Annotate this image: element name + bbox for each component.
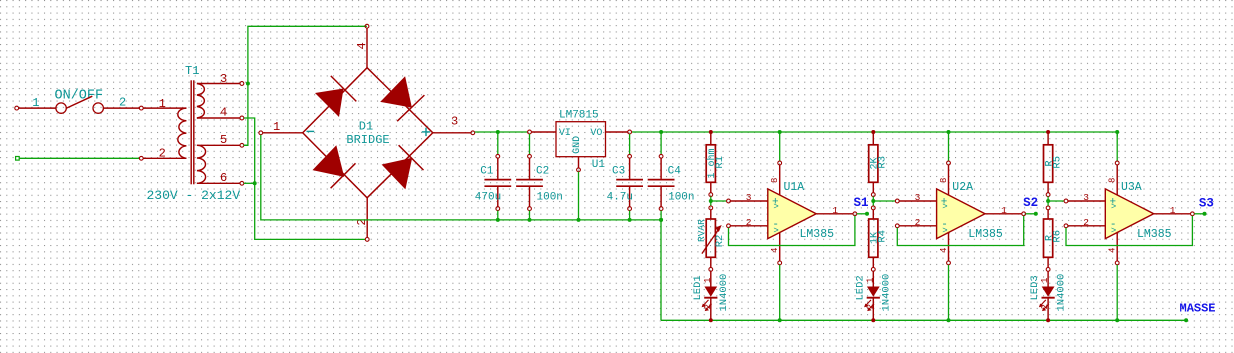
regulator U1 pin VI label [559, 128, 571, 139]
bridge D1 diode top-left [315, 76, 356, 117]
svg-text:C3: C3 [612, 165, 625, 177]
regulator U1 pin VO [606, 131, 628, 133]
svg-text:4: 4 [1108, 248, 1118, 253]
transformer T1 pin 1 number [159, 97, 166, 111]
svg-text:1: 1 [832, 205, 838, 216]
net label S2 [1023, 196, 1038, 210]
switch SW1 label ON/OFF [55, 89, 104, 104]
svg-text:S1: S1 [854, 196, 869, 210]
op-amp U1A [727, 130, 869, 322]
transformer T1 primary winding [178, 108, 187, 158]
svg-text:LM385: LM385 [1137, 228, 1172, 241]
svg-text:8: 8 [939, 178, 949, 183]
svg-text:2: 2 [746, 217, 752, 228]
svg-text:1: 1 [865, 278, 875, 283]
svg-text:3: 3 [451, 115, 458, 129]
transformer T1 pin 3 number [220, 72, 227, 86]
regulator U1 value LM7815 [559, 109, 599, 121]
svg-text:U3A: U3A [1121, 181, 1142, 194]
svg-text:4: 4 [220, 106, 227, 120]
transformer T1 secondary winding bottom [197, 145, 206, 183]
svg-text:U1A: U1A [784, 181, 805, 194]
svg-text:GND: GND [572, 136, 583, 154]
svg-text:1: 1 [32, 96, 39, 110]
transformer T1 core [191, 80, 194, 184]
svg-text:1: 1 [159, 97, 166, 111]
transformer T1 pin 1 circle [139, 106, 143, 110]
transformer T1 secondary winding top [197, 84, 204, 119]
MASSE rail end dot [1184, 318, 1188, 322]
wire S2 to U3A pin3 [1048, 200, 1064, 202]
regulator U1 pin GND circle [577, 168, 581, 172]
wire T1 pin4/pin6 to bridge AC bottom [244, 118, 366, 239]
wire primary bottom (green) [16, 157, 140, 161]
regulator U1 reference [592, 159, 606, 171]
wire bridge pin3 to VI [475, 131, 528, 133]
wire bridge pin1 to 0V mid rail [261, 135, 661, 220]
svg-text:LM7815: LM7815 [559, 109, 599, 121]
svg-text:T1: T1 [185, 64, 199, 78]
wire T1 pin3/pin5 to bridge AC top [244, 26, 367, 145]
svg-text:3: 3 [1083, 192, 1089, 203]
wire T1 pin5 stub [244, 144, 248, 146]
bridge D1 pin 4 number [355, 42, 369, 49]
net label S1 [854, 196, 869, 210]
svg-text:>: > [942, 226, 947, 236]
wire VO to V+ rail [632, 132, 1118, 137]
regulator U1 pin VI [531, 131, 556, 133]
transformer T1 pin 5 number [220, 133, 227, 147]
svg-text:U1: U1 [592, 159, 606, 171]
transformer T1 pin 4 circle [240, 116, 244, 120]
svg-text:1: 1 [1170, 205, 1176, 216]
svg-text:LM385: LM385 [800, 228, 835, 241]
transformer T1 pin 6 number [220, 171, 227, 185]
bridge D1 pin 1 (left) [263, 132, 303, 134]
bridge D1 diode bottom-right [382, 145, 424, 189]
transformer T1 value 230V - 2x12V [147, 188, 241, 203]
svg-text:C4: C4 [668, 165, 682, 177]
LED LED1 1N4000 [692, 271, 730, 322]
bridge D1 pin 1 number [273, 120, 280, 134]
LED LED2 1N4000 [854, 271, 892, 322]
svg-text:>: > [1111, 226, 1116, 236]
op-amp U3A [1064, 130, 1206, 322]
svg-text:1: 1 [1040, 278, 1050, 283]
transformer T1 pin 4 number [220, 106, 227, 120]
bridge D1 pin 3 circle [471, 131, 475, 135]
svg-text:LM385: LM385 [968, 228, 1003, 241]
transformer T1 label [185, 64, 199, 78]
svg-text:LED1: LED1 [692, 275, 704, 300]
svg-text:VO: VO [590, 128, 602, 139]
svg-text:8: 8 [770, 178, 780, 183]
svg-text:MASSE: MASSE [1180, 302, 1216, 316]
svg-text:470u: 470u [475, 192, 501, 204]
transformer T1 pin 2 circle [139, 156, 143, 160]
switch pin 2 number [119, 96, 126, 110]
svg-text:3: 3 [915, 192, 921, 203]
bridge plus sign [422, 128, 430, 136]
svg-text:1: 1 [273, 120, 280, 134]
wire S1 to U2A pin3 [873, 200, 895, 202]
resistor R6 [1044, 206, 1064, 271]
svg-text:R4: R4 [877, 230, 889, 243]
svg-text:6: 6 [220, 171, 227, 185]
transformer T1 pin 4 [197, 117, 240, 119]
regulator U1 pin VO circle [628, 130, 632, 134]
regulator U1 pin VO label [590, 128, 602, 139]
switch pin 1 number [32, 96, 39, 110]
svg-text:4: 4 [355, 42, 369, 49]
wire U1 GND to 0V rail [578, 172, 580, 220]
svg-text:1N4000: 1N4000 [718, 274, 730, 312]
regulator U1 pin GND label [572, 136, 583, 154]
regulator U1 box [556, 122, 606, 157]
svg-text:2: 2 [1083, 217, 1089, 228]
bridge D1 pin 3 (right) [433, 132, 471, 134]
junction T1 pin3 [246, 82, 250, 86]
junction S1 node [871, 199, 875, 203]
svg-text:3: 3 [746, 192, 752, 203]
junction S2 node [1046, 199, 1050, 203]
svg-text:ON/OFF: ON/OFF [55, 89, 104, 104]
bridge D1 pin 1 circle [259, 131, 263, 135]
bridge D1 value BRIDGE [346, 133, 389, 147]
svg-text:8: 8 [1108, 178, 1118, 183]
bridge D1 pin 4 circle [365, 24, 369, 28]
svg-text:1N4000: 1N4000 [881, 274, 893, 312]
wire node to U1A pin3 [711, 200, 727, 202]
transformer T1 pin 5 circle [240, 143, 244, 147]
transformer T1 pin 1 [143, 107, 186, 109]
svg-text:4: 4 [770, 248, 780, 253]
switch SW1 blade [66, 96, 92, 108]
svg-text:D1: D1 [359, 119, 373, 133]
svg-text:100n: 100n [537, 192, 563, 204]
junction U1 GND [577, 218, 581, 222]
wire S2 node vertical [1047, 197, 1049, 207]
svg-text:1: 1 [703, 278, 713, 283]
regulator U1 pin VI circle [528, 130, 532, 134]
transformer T1 pin 2 [143, 157, 186, 159]
svg-text:R1: R1 [714, 156, 726, 169]
regulator U1 pin GND [578, 157, 580, 168]
svg-text:5: 5 [220, 133, 227, 147]
svg-text:S2: S2 [1023, 196, 1038, 210]
net label S3 [1199, 196, 1214, 210]
bridge minus sign [307, 130, 315, 132]
svg-text:1N4000: 1N4000 [1055, 274, 1067, 312]
svg-text:4.7u: 4.7u [607, 192, 633, 204]
svg-text:C2: C2 [536, 165, 549, 177]
svg-text:100n: 100n [668, 192, 694, 204]
resistor R3 [869, 130, 889, 197]
bridge D1 reference [359, 119, 373, 133]
transformer T1 pin 2 number [159, 147, 166, 161]
bridge D1 pin 3 number [451, 115, 458, 129]
bridge D1 pin 2 (bottom) [366, 198, 368, 238]
junction R1/RVAR/U1A+ [709, 199, 713, 203]
capacitor C1 [475, 130, 511, 222]
svg-text:VI: VI [559, 128, 571, 139]
net label MASSE [1180, 302, 1216, 316]
svg-text:>: > [1111, 202, 1116, 212]
transformer T1 pin 5 [197, 144, 240, 146]
svg-text:R2: R2 [714, 235, 726, 248]
wire S1 node vertical [872, 197, 874, 207]
bridge D1 pin 2 number [355, 218, 369, 225]
bridge D1 pin 2 circle [365, 238, 369, 242]
resistor R1 [706, 130, 726, 197]
bridge D1 diode top-right [380, 76, 424, 121]
wire R1 node vertical [710, 197, 712, 207]
capacitor C3 [607, 134, 643, 222]
wire MASSE rail [661, 319, 1186, 321]
LED LED3 1N4000 [1029, 271, 1067, 322]
op-amp U2A [895, 130, 1037, 322]
junction 0V/C4 [659, 218, 663, 222]
transformer T1 pin 3 circle [240, 82, 244, 86]
svg-text:R5: R5 [1051, 156, 1063, 169]
svg-text:R6: R6 [1051, 230, 1063, 243]
wire switch pin2 to transformer [104, 107, 140, 109]
svg-text:RVAR: RVAR [696, 219, 707, 242]
svg-text:2: 2 [915, 217, 921, 228]
transformer T1 pin 6 [197, 182, 240, 184]
transformer T1 pin 3 [197, 83, 240, 85]
svg-text:LED3: LED3 [1029, 275, 1041, 300]
resistor R5 [1044, 130, 1064, 197]
svg-text:>: > [773, 202, 778, 212]
bridge D1 diode bottom-left [313, 145, 356, 188]
wire T1 pin6 stub [244, 182, 255, 184]
capacitor C2 [516, 134, 563, 222]
switch SW1 contact circle left [56, 103, 66, 113]
bridge D1 outline [303, 68, 433, 198]
svg-text:1: 1 [1001, 205, 1007, 216]
svg-text:U2A: U2A [952, 181, 973, 194]
capacitor C4 [648, 130, 695, 222]
resistor R4 [869, 206, 889, 271]
switch SW1 contact circle right [93, 103, 103, 113]
svg-text:BRIDGE: BRIDGE [346, 133, 389, 147]
bridge D1 pin 4 (top) [366, 28, 368, 67]
svg-text:230V - 2x12V: 230V - 2x12V [147, 188, 241, 203]
junction T1 pin6 [253, 181, 257, 185]
svg-text:>: > [773, 226, 778, 236]
wire switch pin1 [19, 107, 56, 109]
svg-text:4: 4 [939, 248, 949, 253]
transformer T1 pin 6 circle [240, 181, 244, 185]
svg-text:3: 3 [220, 72, 227, 86]
svg-text:R3: R3 [877, 156, 889, 169]
svg-text:S3: S3 [1199, 196, 1214, 210]
svg-text:LED2: LED2 [854, 275, 866, 300]
svg-text:>: > [942, 202, 947, 212]
switch SW1 pin 1 end circle [15, 106, 19, 110]
wire 0V rail down to MASSE rail [660, 220, 662, 320]
potentiometer R2 RVAR [696, 206, 726, 271]
svg-text:C1: C1 [480, 165, 494, 177]
